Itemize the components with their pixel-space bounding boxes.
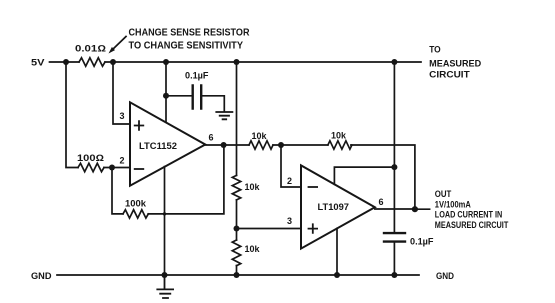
resistor R5 10k feedback (328, 141, 352, 149)
op-amp U2 LT1097 (301, 165, 375, 248)
annotation arrow (113, 37, 127, 50)
wire 5V to noninverting input pin 3 (113, 62, 130, 124)
capacitor C2 0.1uF (384, 233, 405, 242)
wire U1 output node (205, 145, 429, 209)
svg-text:1V/100mA: 1V/100mA (435, 200, 471, 210)
svg-text:CIRCUIT: CIRCUIT (429, 70, 470, 80)
svg-text:0.1µF: 0.1µF (410, 236, 434, 246)
wire feedback from inverting input down (112, 145, 224, 214)
node crossing blob at ground line (163, 212, 166, 215)
node ground rail junction at divider (234, 272, 240, 278)
svg-text:LOAD CURRENT IN: LOAD CURRENT IN (435, 210, 503, 220)
label U1 minus input (135, 168, 144, 170)
node summing junction between 10k resistors (278, 142, 284, 148)
svg-text:0.1µF: 0.1µF (185, 71, 209, 81)
svg-text:6: 6 (208, 133, 213, 143)
svg-text:10k: 10k (245, 244, 261, 254)
svg-text:100k: 100k (125, 199, 147, 209)
wire 5V divider branch (236, 62, 238, 275)
wire U2 output (375, 208, 415, 210)
resistor R3 100k feedback (123, 210, 148, 218)
node supply junction at U2 (391, 164, 397, 170)
node inverting input junction (109, 165, 115, 171)
svg-text:MEASURED CIRCUIT: MEASURED CIRCUIT (435, 220, 509, 230)
node U2 output junction (412, 206, 418, 212)
node 5V rail junction A (63, 59, 69, 65)
ground symbol main (157, 275, 173, 298)
svg-text:LT1097: LT1097 (318, 202, 350, 212)
svg-text:10k: 10k (245, 182, 261, 192)
svg-text:3: 3 (287, 216, 292, 226)
wire U1 V+ pin from 5V rail (165, 62, 167, 122)
wire divider midpoint to U2 noninverting input (237, 228, 302, 230)
wire 5V to 100ohm input branch (66, 62, 130, 168)
svg-text:2: 2 (119, 156, 124, 166)
wire supply line down to bypass cap (393, 62, 395, 275)
svg-text:0.01Ω: 0.01Ω (75, 44, 106, 54)
svg-text:TO: TO (429, 45, 441, 55)
svg-text:MEASURED: MEASURED (429, 59, 481, 69)
svg-text:GND: GND (31, 271, 52, 281)
svg-text:10k: 10k (252, 131, 268, 141)
wire summing node to U2 inverting input (281, 145, 301, 187)
svg-text:CHANGE SENSE RESISTOR: CHANGE SENSE RESISTOR (129, 28, 251, 39)
svg-text:5V: 5V (31, 58, 45, 68)
ground symbol at C1 (216, 112, 232, 119)
label U2 plus input (309, 224, 318, 233)
op-amp U1 LTC1152 (130, 102, 205, 185)
wire U1 V- pin to ground rail (164, 167, 166, 275)
wire bypass cap branch (166, 96, 224, 111)
svg-text:6: 6 (378, 197, 383, 207)
svg-text:TO CHANGE SENSITIVITY: TO CHANGE SENSITIVITY (129, 41, 244, 52)
svg-text:2: 2 (287, 176, 292, 186)
resistor R7 10k divider lower (232, 240, 240, 266)
capacitor C1 0.1uF (193, 85, 202, 108)
node 5V rail junction D (234, 59, 240, 65)
node U1 output junction (221, 142, 227, 148)
svg-text:OUT: OUT (435, 189, 452, 199)
wire top 5V rail (50, 61, 422, 63)
resistor R1 0.01ohm sense (79, 58, 105, 66)
node divider midpoint (234, 226, 240, 232)
node 5V rail junction B (110, 59, 116, 65)
node ground rail junction at U1 (162, 272, 168, 278)
resistor R2 100ohm (78, 163, 104, 171)
svg-text:GND: GND (436, 271, 454, 281)
node ground rail junction at C2 (391, 272, 397, 278)
wire bottom ground rail (57, 274, 419, 276)
wire U2 V- pin to ground rail (336, 228, 338, 275)
label U2 minus input (309, 186, 318, 188)
wire U2 V+ pin to supply line (334, 167, 394, 184)
label U1 plus input (135, 121, 144, 130)
resistor R4 10k (249, 141, 273, 149)
svg-text:3: 3 (119, 111, 124, 121)
node 5V rail junction E (391, 59, 397, 65)
node U1 bypass junction (163, 93, 169, 99)
node ground rail junction at U2 (334, 272, 340, 278)
svg-text:100Ω: 100Ω (77, 153, 104, 163)
svg-text:LTC1152: LTC1152 (139, 141, 177, 151)
resistor R6 10k divider upper (232, 175, 240, 200)
node 5V rail junction C (163, 59, 169, 65)
svg-text:10k: 10k (331, 130, 347, 140)
